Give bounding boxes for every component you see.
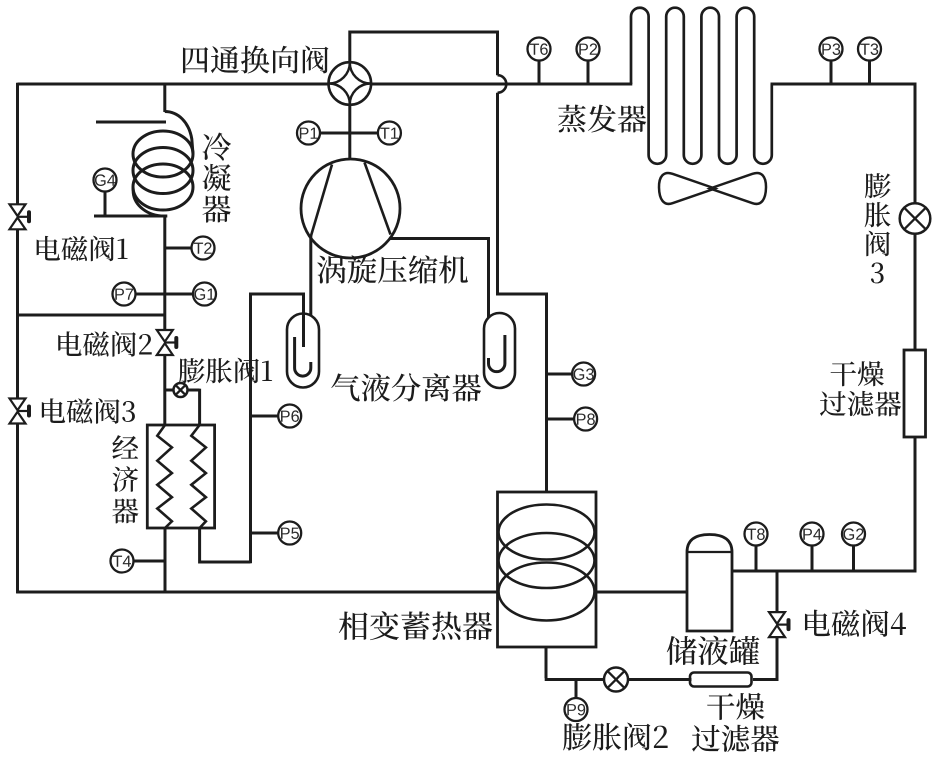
wire bottom horizontal [16,591,499,594]
sensor G4 [94,169,117,192]
wire 4way to compressor [348,105,351,161]
expansion valve 膨胀阀2 [604,668,628,692]
wire vapor riser [251,294,304,563]
wire SV4 down [753,637,777,680]
solenoid valve 电磁阀3 [10,399,26,411]
sensor P1 [297,122,320,145]
solenoid valve 电磁阀2 [157,330,173,342]
wire right vertical [914,234,917,352]
label 电磁阀1 [37,236,128,262]
label 相变蓄热器 [339,611,492,640]
wire center vertical upper [163,83,166,112]
sensor P3 [820,38,843,61]
separator J-pipe left [295,337,311,376]
wire center vertical lower [163,355,166,427]
wire right vertical lower [731,437,916,571]
separator shell left [287,314,319,388]
sensor P4 [801,523,824,546]
label 电磁阀3 [42,398,135,424]
condenser water pipe bottom [94,215,167,218]
wire filter to EV2 [628,678,692,681]
label 干燥过滤器 right [831,361,884,386]
sensor T4 [111,550,134,573]
sensor T2 [165,247,192,250]
sensor T3 [858,38,881,61]
evaporator fan [659,173,715,204]
label 干燥过滤器 bottom [707,693,764,720]
wire left vertical middle [16,229,19,399]
sensor P9 [565,698,588,721]
sensor T1 [350,132,378,135]
sensor P8 [547,418,575,421]
evaporator coil 蒸发器 [631,8,772,164]
label 储液罐 [667,636,760,665]
wire 4way to evaporator [371,83,632,86]
separator inlet left [302,294,305,347]
label 四通换向阀 [183,46,328,74]
label 膨胀阀1 [179,358,272,384]
sensor T6 [528,38,551,61]
economizer coil left [157,425,172,528]
sensor G2 [842,523,865,546]
heat storage coil [499,505,595,560]
receiver 储液罐 [687,535,732,632]
condenser coil 冷凝器 [165,112,193,155]
wire storage to receiver [595,591,689,594]
label 气液分离器 [331,373,481,401]
wire down to storage [498,93,547,494]
scroll compressor 涡旋压缩机 [301,159,400,258]
sensor T8 [745,523,768,546]
separator shell right [484,313,515,388]
sensor G1 [165,293,193,296]
label 冷凝器 [202,133,231,223]
wire economizer left outlet [164,528,167,593]
economizer shell 经济器 [147,425,214,528]
label 涡旋压缩机 [317,255,468,283]
sensor P2 [577,38,600,61]
separator J-pipe right [489,335,505,372]
wire evaporator to right edge [771,84,916,204]
wire left vertical lower [16,423,19,593]
wire expansion-valve-1 branch [165,389,174,392]
sensor P6 [251,415,279,418]
wire hop over main line [498,75,507,93]
filter drier horizontal [690,673,752,687]
label 膨胀阀2 [563,723,667,751]
four-way reversing valve 四通换向阀 [329,62,372,105]
expansion valve 膨胀阀3 [900,203,931,234]
expansion valve 膨胀阀1 [174,383,188,397]
condenser water pipe top [96,121,166,124]
solenoid valve 电磁阀1 [10,204,26,216]
wire receiver right [776,571,779,614]
label 经济器 [112,435,138,523]
heat storage shell 相变蓄热器 [498,492,597,647]
label 电磁阀2 [58,331,151,357]
sensor P5 [251,532,279,535]
solenoid valve 电磁阀4 [769,612,785,624]
sensor P7 [113,283,136,306]
wire center vertical mid [163,216,166,330]
label 膨胀阀3 [865,173,891,283]
label 蒸发器 [558,105,646,133]
wire EV2 to storage [545,678,604,681]
wire economizer right outlet [200,528,251,562]
label 电磁阀4 [805,610,906,637]
economizer coil right [191,425,206,528]
wire compressor to right separator [390,239,489,361]
wire 4way top loop [350,32,498,75]
filter drier vertical 干燥过滤器 [904,350,926,437]
wire branch y=315 [16,314,166,317]
wire left vertical upper [16,83,19,205]
sensor G3 [547,373,573,376]
wire compressor to left separator [309,235,312,364]
wire top-left horizontal [18,83,329,86]
